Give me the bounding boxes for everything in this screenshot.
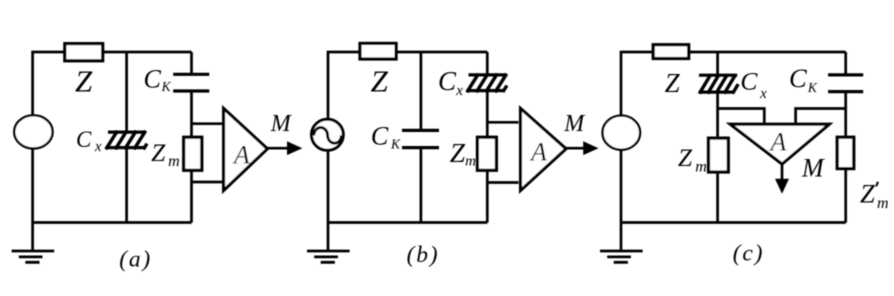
svg-text:C: C [76, 127, 92, 152]
svg-text:M: M [563, 111, 586, 137]
svg-text:M: M [270, 111, 293, 137]
svg-text:m: m [877, 195, 889, 212]
svg-text:C: C [144, 65, 162, 94]
svg-text:K: K [807, 80, 818, 95]
svg-text:x: x [455, 83, 463, 99]
svg-text:Z: Z [151, 138, 166, 167]
svg-text:x: x [94, 139, 102, 155]
svg-text:(a): (a) [119, 247, 152, 273]
svg-text:Z: Z [371, 64, 389, 99]
svg-text:C: C [740, 67, 758, 96]
svg-text:C: C [789, 63, 807, 93]
svg-text:(c): (c) [733, 240, 764, 266]
svg-text:Z: Z [665, 68, 681, 98]
svg-text:Z: Z [678, 143, 693, 172]
svg-text:A: A [529, 138, 547, 167]
svg-text:Z: Z [75, 63, 93, 98]
svg-text:Z: Z [860, 179, 875, 209]
svg-text:K: K [161, 79, 172, 94]
svg-text:K: K [390, 137, 401, 152]
svg-text:m: m [695, 159, 707, 176]
svg-text:M: M [801, 154, 825, 183]
svg-text:A: A [232, 140, 250, 169]
svg-text:m: m [168, 153, 180, 170]
svg-text:x: x [759, 86, 767, 102]
svg-text:C: C [438, 66, 457, 96]
svg-text:(b): (b) [407, 242, 440, 268]
svg-text:Z: Z [450, 137, 466, 168]
svg-text:m: m [465, 153, 476, 169]
svg-text:A: A [769, 128, 787, 157]
svg-text:C: C [371, 121, 389, 150]
